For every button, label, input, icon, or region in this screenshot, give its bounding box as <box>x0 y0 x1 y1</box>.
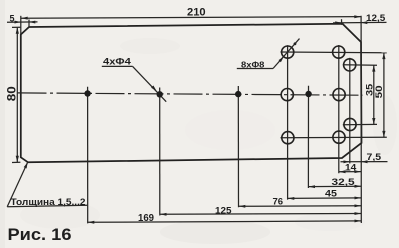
arrow 50 bottom <box>382 131 385 138</box>
arrow 32.5 right <box>355 185 362 188</box>
extension line: hole H2 vertical down to 125 dim <box>159 88 161 216</box>
dimension line 45 <box>288 197 362 200</box>
dimension line 169 <box>88 221 362 222</box>
leader 4xF4: underline <box>102 65 133 67</box>
arrowheads <box>15 15 386 223</box>
center line (horizontal axis through holes) <box>18 93 363 95</box>
arrow 45 right <box>355 197 362 200</box>
dimension line 125 <box>160 213 361 216</box>
extension line: hole H1 vertical down to 169 dim <box>87 87 89 224</box>
arrow 14 left <box>339 170 346 173</box>
extension line: column A vertical (through circles A1-A3) down to 45 dim <box>287 45 289 199</box>
arrow leader 4xF4 at hole H2 <box>151 86 156 91</box>
circles 8xF8 <box>281 46 356 144</box>
svg-text:80: 80 <box>7 86 19 101</box>
dimension line 80 <box>16 28 18 162</box>
svg-text:7,5: 7,5 <box>367 152 382 162</box>
leader thickness: diagonal to bottom edge <box>7 162 27 206</box>
arrow 45 left <box>288 197 295 200</box>
extension line: chamfer start x=341.5 for 12.5 dim <box>341 19 343 25</box>
svg-text:45: 45 <box>325 189 337 199</box>
extension line: column B vertical (through circles B1-B3) down to 14 dim <box>338 45 340 173</box>
extension line: circle C1 horizontal to 35 dim <box>343 64 377 67</box>
extension line: row R3 horizontal to 50 dim <box>281 136 387 139</box>
leader thickness: underline <box>7 205 88 207</box>
extension line: circle C2 horizontal to 35 dim <box>343 123 377 125</box>
svg-text:8xΦ8: 8xΦ8 <box>241 60 265 70</box>
arrow 14 right <box>355 170 362 173</box>
dimension line 210 <box>21 17 361 19</box>
circle C1 <box>344 59 356 71</box>
arrow 32.5 left <box>309 185 316 188</box>
arrow 125 left <box>160 213 167 216</box>
dimension line 35 <box>373 65 375 124</box>
svg-text:Толщина 1,5...2: Толщина 1,5...2 <box>11 197 86 208</box>
dimension line 12.5 <box>333 21 387 24</box>
dimension line 50 <box>383 53 385 138</box>
arrow leader 8xF8 at circle A1 <box>279 57 284 63</box>
extension line: right edge vertical (x=361) for top and bottom dims <box>360 16 362 223</box>
dimension line 7.5 <box>341 161 388 163</box>
arrow 50 top <box>382 53 385 60</box>
dimension line 14 <box>339 171 361 173</box>
hole H2 <box>157 91 163 97</box>
svg-text:210: 210 <box>187 7 206 19</box>
leader 4xF4: diagonal to hole H2 <box>133 66 167 101</box>
hole H1 <box>84 90 90 96</box>
arrow 7.5 right (points left) <box>361 160 367 163</box>
arrow 169 right <box>355 220 362 223</box>
leader 8xF8: diagonal through circle A1 <box>273 39 300 69</box>
arrow 35 top <box>372 65 375 72</box>
extension line: left edge vertical up to 210 dim <box>20 16 22 35</box>
holes 4xF4 (filled) <box>84 90 311 97</box>
svg-text:4xΦ4: 4xΦ4 <box>103 57 131 67</box>
circle B2 <box>333 89 345 101</box>
svg-text:5: 5 <box>10 14 15 24</box>
arrow 80 bottom <box>16 156 19 163</box>
leader 8xF8: underline <box>237 68 273 70</box>
arrow 125 right <box>355 212 362 215</box>
extension line: x=29 for 5 dim <box>28 20 30 28</box>
extension tick: bottom of 80 dim <box>12 161 20 163</box>
arrow 5 right (points left) <box>29 21 35 24</box>
hole H3 <box>235 91 241 97</box>
circle C2 <box>344 118 356 130</box>
arrow 76 right <box>355 204 362 207</box>
scan background shading <box>0 0 5 248</box>
arrow 210 right <box>354 15 361 18</box>
svg-text:76: 76 <box>273 196 284 206</box>
arrow 7.5 left (points right) <box>344 160 350 163</box>
circle A2 <box>281 89 293 101</box>
arrow 210 left <box>21 17 28 20</box>
arrow 80 top <box>16 27 19 34</box>
leader 8xF8 tick beyond circle <box>294 42 297 45</box>
hole H4 <box>305 91 311 97</box>
arrow 76 left <box>239 205 246 208</box>
arrow 12.5 left (points right) <box>335 21 341 24</box>
dimension line 32.5 <box>308 185 361 187</box>
circle B3 <box>333 131 345 143</box>
arrow 12.5 right (points left) <box>361 21 367 24</box>
svg-text:50: 50 <box>374 85 384 98</box>
extension line: hole H3 vertical down to 76 dim <box>237 86 239 207</box>
arrow 5 left (points right) <box>15 21 21 24</box>
arrow 169 left <box>88 221 95 224</box>
svg-text:32,5: 32,5 <box>332 177 355 187</box>
plate outline <box>21 24 362 163</box>
extension tick: top of 80 dim <box>12 26 20 28</box>
svg-text:14: 14 <box>345 162 356 172</box>
extension line: hole H4 vertical down to 32.5 dim <box>307 86 309 188</box>
arrow leader thickness at bottom edge <box>24 162 28 168</box>
circle B1 <box>333 46 345 58</box>
dimension line 5 <box>7 21 38 23</box>
arrow 35 bottom <box>372 118 375 125</box>
circle A3 <box>282 132 294 144</box>
dimension line 76 <box>239 205 362 208</box>
svg-text:12,5: 12,5 <box>366 13 385 23</box>
svg-text:Рис. 16: Рис. 16 <box>8 226 72 244</box>
circle A1 <box>282 46 294 58</box>
extension line: row R1 horizontal to 50 dim <box>281 51 387 54</box>
svg-text:169: 169 <box>138 213 154 224</box>
svg-text:125: 125 <box>215 205 232 216</box>
extension line: column C vertical (through circles C1-C2) down to 7.5 dim <box>349 58 351 164</box>
